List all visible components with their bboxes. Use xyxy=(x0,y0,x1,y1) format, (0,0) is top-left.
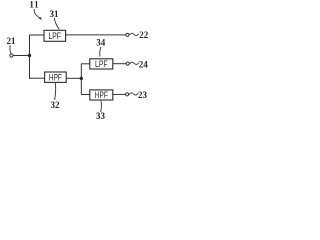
svg-text:11: 11 xyxy=(29,0,39,10)
tilde 24 xyxy=(130,62,139,64)
LPF block 31 xyxy=(44,30,66,41)
terminal 24 circle xyxy=(126,62,129,65)
LPF block 34 xyxy=(90,59,113,69)
junction dot 2 xyxy=(80,77,83,80)
tilde 23 xyxy=(129,93,138,95)
svg-text:LPF: LPF xyxy=(95,59,108,69)
svg-text:32: 32 xyxy=(51,100,61,110)
wire LPF31 to terminal 22 xyxy=(66,34,126,36)
wire LPF34 to terminal 24 xyxy=(113,63,126,65)
svg-text:22: 22 xyxy=(139,30,149,40)
wire vertical junction2 x=81.3 xyxy=(80,64,82,95)
terminal 23 circle xyxy=(126,93,129,96)
wire HPF32 to junction2 xyxy=(66,77,81,79)
HPF block 33 xyxy=(90,90,113,100)
wire to LPF31 xyxy=(29,34,44,36)
svg-text:LPF: LPF xyxy=(48,31,61,41)
wire vertical main x=29.5 xyxy=(29,35,31,79)
leader 32 xyxy=(55,83,56,100)
terminal 21 circle xyxy=(10,54,13,57)
leader 34 xyxy=(100,47,101,57)
wire junction2 to HPF33 xyxy=(81,94,90,96)
svg-text:34: 34 xyxy=(96,38,106,48)
svg-text:23: 23 xyxy=(138,90,148,100)
svg-text:33: 33 xyxy=(96,111,106,120)
HPF block 32 xyxy=(45,72,67,82)
tilde 22 xyxy=(130,33,139,35)
wire junction2 to LPF34 xyxy=(81,63,90,65)
arrow for 11 xyxy=(34,9,40,18)
wire HPF33 to terminal 23 xyxy=(113,93,126,95)
terminal 22 circle xyxy=(126,33,129,36)
leader 31 xyxy=(54,18,59,29)
svg-text:HPF: HPF xyxy=(49,72,62,82)
svg-text:21: 21 xyxy=(7,36,17,46)
leader 33 xyxy=(100,101,103,112)
svg-text:HPF: HPF xyxy=(95,90,108,100)
junction dot 1 xyxy=(28,54,31,57)
svg-text:31: 31 xyxy=(50,9,60,19)
wire input to junction1 xyxy=(13,55,29,57)
leader 21 xyxy=(10,45,11,53)
svg-text:24: 24 xyxy=(139,59,149,69)
wire to HPF32 xyxy=(29,77,45,79)
